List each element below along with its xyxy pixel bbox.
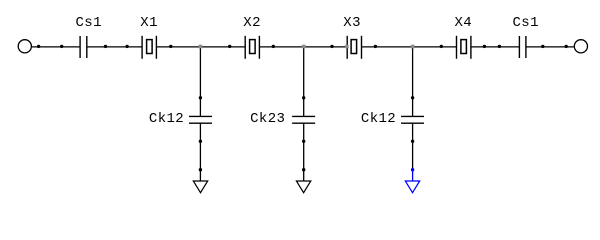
svg-text:Ck12: Ck12 bbox=[361, 111, 396, 127]
capacitor Ck12 (first) bbox=[189, 116, 212, 123]
wire end marker at X3 pin 1 plate bbox=[345, 45, 349, 49]
svg-text:Ck23: Ck23 bbox=[250, 111, 285, 127]
pin dot Cs1 pin 2 bbox=[104, 45, 107, 48]
crystal X2 bbox=[245, 36, 259, 59]
wire X2 to X3 bbox=[259, 46, 347, 48]
svg-text:Ck12: Ck12 bbox=[149, 111, 184, 127]
crystal X4 bbox=[457, 36, 471, 59]
wire P1 to Cs1 bbox=[32, 46, 80, 48]
pin dot Ck23 pin 2 bbox=[302, 140, 305, 143]
wire Ck23 to ground 2 bbox=[303, 123, 305, 181]
wire X3 to X4 bbox=[362, 46, 457, 48]
junction node 1 (wire end marker) bbox=[199, 45, 203, 49]
wire Ck12 second to ground 3 bbox=[412, 123, 414, 170]
wire node2 down to Ck23 bbox=[303, 47, 305, 116]
svg-text:X1: X1 bbox=[140, 15, 158, 31]
pin dot X3 pin 2 bbox=[374, 45, 377, 48]
pin dot Ck12 pin 2 bbox=[199, 140, 202, 143]
pin dot X2 pin 1 bbox=[228, 45, 231, 48]
junction node 3 (wire end marker) bbox=[411, 45, 415, 49]
pin dot port P2 bbox=[565, 45, 568, 48]
capacitor Cs1 (left) bbox=[80, 36, 87, 58]
crystal X1 bbox=[142, 36, 156, 59]
wire X1 to X2 bbox=[156, 46, 245, 48]
svg-text:X3: X3 bbox=[343, 15, 361, 31]
capacitor Ck23 bbox=[292, 116, 315, 123]
port P1 bbox=[18, 40, 31, 53]
wire node3 down to Ck12 bbox=[412, 47, 414, 116]
pin dot Ck12 second pin 2 bbox=[411, 140, 414, 143]
wire Cs1 to X1 bbox=[87, 46, 142, 48]
svg-text:X4: X4 bbox=[455, 15, 473, 31]
pin dot Cs1 right pin 2 bbox=[541, 45, 544, 48]
svg-text:X2: X2 bbox=[243, 15, 261, 31]
capacitor Ck12 (second) bbox=[401, 116, 424, 123]
pin dot Ck23 pin 1 bbox=[302, 96, 305, 99]
pin dot X1 pin 2 bbox=[169, 45, 172, 48]
wire node1 down to Ck12 bbox=[199, 47, 201, 116]
pin dot ground 1 bbox=[199, 168, 202, 171]
pin dot ground 2 bbox=[302, 168, 305, 171]
pin dot Cs1 right pin 1 bbox=[498, 45, 501, 48]
wire to ground 3 (selected, blue) bbox=[412, 170, 414, 181]
pin dot Ck12 pin 1 bbox=[199, 96, 202, 99]
pin dot X1 pin 1 bbox=[125, 45, 128, 48]
pin dot Ck12 second pin 1 bbox=[411, 96, 414, 99]
pin dot ground 3 (selected, blue) bbox=[411, 168, 414, 171]
pin dot Cs1 pin 1 bbox=[60, 45, 63, 48]
pin dot port P1 bbox=[37, 45, 40, 48]
junction node 2 (wire end marker) bbox=[302, 45, 306, 49]
ground 3 (selected, blue) bbox=[405, 181, 419, 193]
crystal X3 bbox=[347, 36, 361, 59]
pin dot X4 pin 1 bbox=[440, 45, 443, 48]
svg-text:Cs1: Cs1 bbox=[76, 15, 102, 31]
ground 2 bbox=[296, 181, 310, 193]
wire Ck12 to ground 1 bbox=[199, 123, 201, 181]
port P2 bbox=[574, 40, 587, 53]
pin dot X3 pin 1 bbox=[330, 45, 333, 48]
ground 1 bbox=[193, 181, 207, 193]
capacitor Cs1 (right) bbox=[519, 36, 526, 58]
pin dot X2 pin 2 bbox=[272, 45, 275, 48]
wire X4 to Cs1 (right) bbox=[471, 46, 520, 48]
wire Cs1 to P2 bbox=[526, 46, 574, 48]
pin dot X4 pin 2 bbox=[483, 45, 486, 48]
svg-text:Cs1: Cs1 bbox=[513, 15, 539, 31]
